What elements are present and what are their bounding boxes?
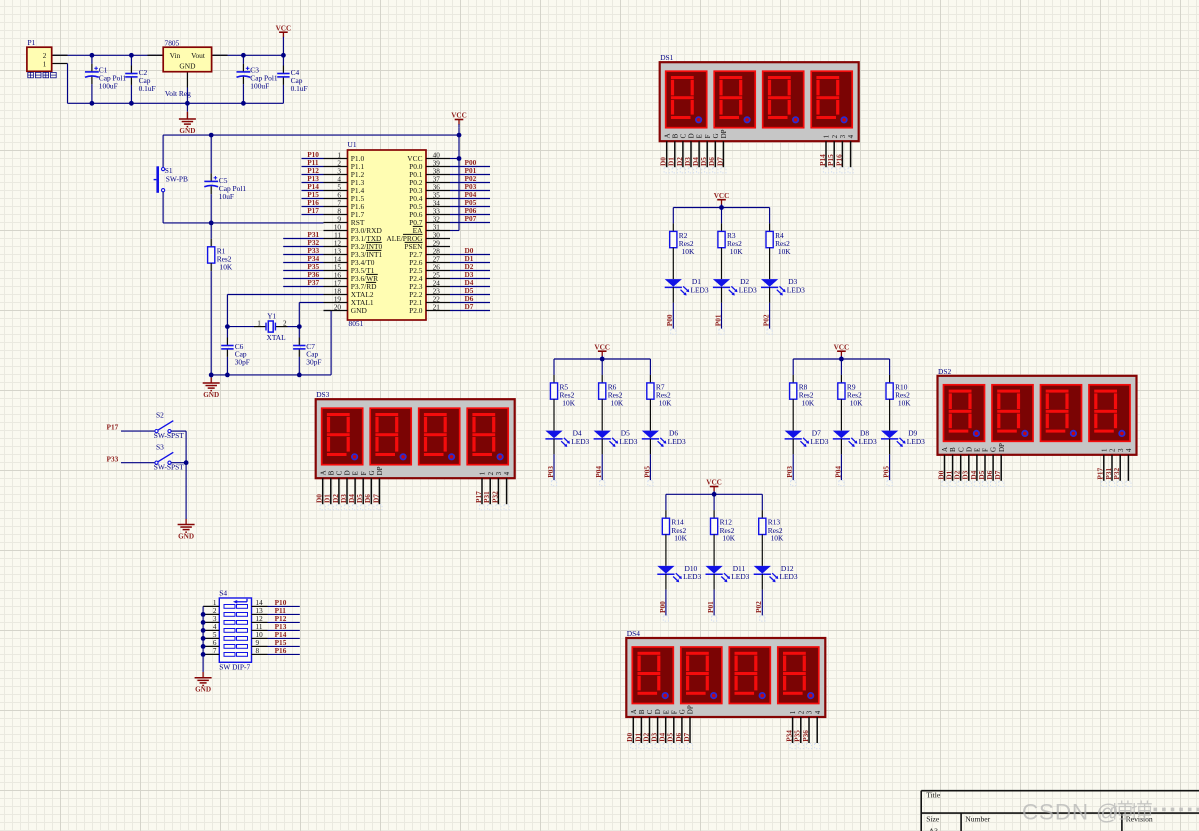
svg-text:16: 16 [334,272,342,280]
U1 right net wires D0-D7 [450,254,490,256]
capacitor C6 [221,342,250,367]
svg-text:P16: P16 [834,154,843,166]
wire [553,359,555,375]
svg-text:36: 36 [433,184,441,192]
svg-text:3: 3 [839,134,847,138]
svg-text:DS2: DS2 [938,367,951,376]
svg-text:P16: P16 [275,646,287,655]
svg-text:34: 34 [433,200,441,208]
S4 left pins [203,599,219,655]
svg-text:19: 19 [334,296,342,304]
svg-text:DS1: DS1 [660,53,673,62]
wire GND rail xtal [211,374,331,376]
resistor R12 [711,518,736,543]
junction dots power rails [90,53,95,58]
wire [769,303,771,329]
pin [769,223,771,231]
svg-text:23: 23 [433,288,441,296]
svg-text:25: 25 [433,272,441,280]
svg-text:C: C [336,470,344,475]
switch S3 SW-SPST [154,442,184,471]
pin [665,535,667,566]
svg-text:SW DIP-7: SW DIP-7 [219,663,250,672]
svg-text:Number: Number [965,814,990,823]
svg-text:P32: P32 [1112,467,1121,479]
wire bottom rail [68,102,284,104]
wire C5 top [210,135,212,173]
svg-text:SW-SPST: SW-SPST [154,431,184,440]
svg-text:Size: Size [926,814,940,823]
svg-text:A: A [941,447,949,452]
LED D9 [881,429,925,447]
S4 right net wires [268,605,300,607]
svg-text:0.1uF: 0.1uF [291,84,308,93]
wire [761,494,763,510]
svg-text:C: C [646,709,654,714]
watermark CSDN [1022,800,1199,825]
svg-text:18: 18 [334,288,342,296]
capacitor C2 wires [130,55,132,65]
svg-text:E: E [974,448,982,452]
pin [601,399,603,430]
wire [889,454,891,480]
resistor R7 [647,382,672,407]
svg-text:1: 1 [43,61,47,69]
wire Vout rail [212,54,284,56]
svg-text:3: 3 [213,615,217,623]
ground symbol at x=211.2 [203,383,220,399]
svg-text:C: C [957,447,965,452]
svg-text:D7: D7 [371,494,380,503]
svg-text:2: 2 [797,710,805,714]
svg-text:DP: DP [687,705,695,714]
wire C5 bottom [210,186,212,194]
wire S1 bottom to RST [162,192,164,223]
power port VCC at x=283.4 [276,24,292,40]
svg-text:2: 2 [283,320,287,328]
svg-text:DP: DP [376,466,384,475]
svg-text:G: G [679,709,687,714]
resistor R8 [790,382,815,407]
wire R1 to GND rail [210,263,212,271]
pin P1.2 [52,54,68,56]
capacitor C1 wires [91,55,93,64]
svg-text:GND: GND [179,62,196,71]
wire [889,359,891,375]
svg-text:12: 12 [256,615,264,623]
svg-text:10K: 10K [802,398,815,407]
svg-text:A: A [663,133,671,138]
capacitor C3 [237,66,278,91]
svg-text:B: B [949,447,957,452]
wire [601,359,603,375]
svg-text:11: 11 [334,232,341,240]
resistor R4 [766,231,791,256]
wire GND stub [186,103,188,111]
svg-text:VCC: VCC [714,192,730,200]
junction [457,156,462,161]
svg-text:5: 5 [213,631,217,639]
svg-text:15: 15 [334,264,342,272]
svg-text:XTAL: XTAL [267,333,287,342]
resistor R1 [208,246,233,271]
svg-text:3: 3 [495,471,503,475]
label 电源接口 (power connector) [28,72,56,77]
wire S3 out [171,462,186,464]
svg-text:P2.0: P2.0 [409,306,423,315]
pin [672,223,674,231]
wire [721,303,723,329]
S4 left bus wire [202,606,204,672]
junction [457,133,462,138]
svg-text:4: 4 [503,471,511,475]
wire [713,590,715,616]
pin [601,439,603,455]
LED D7 [785,429,829,447]
wire down to GND [185,463,187,519]
LED D12 [754,564,798,582]
svg-text:1: 1 [789,710,797,714]
wire VCC stem [458,127,460,135]
svg-text:P02: P02 [762,314,771,326]
svg-text:8051: 8051 [349,319,364,328]
ground symbol at x=203.1 [195,678,212,694]
svg-text:P05: P05 [882,466,891,478]
pin [665,574,667,590]
svg-text:30pF: 30pF [306,358,321,367]
voltage regulator U2 7805 [163,39,211,72]
svg-text:1: 1 [1100,448,1108,452]
pin [889,399,891,430]
wire [761,590,763,616]
capacitor C4 [277,68,307,93]
svg-text:A: A [630,709,638,714]
svg-text:3: 3 [806,710,814,714]
svg-text:5: 5 [337,184,341,192]
svg-text:VCC: VCC [834,343,850,351]
svg-text:LED3: LED3 [787,285,805,294]
junction [184,460,189,465]
svg-text:4: 4 [847,134,855,138]
svg-text:4: 4 [814,710,822,714]
pin [553,439,555,455]
ground symbol at x=187.4 [179,119,196,135]
wire top rail (P1 pin2 to 7805 Vin) [52,54,164,56]
svg-text:4: 4 [213,623,217,631]
svg-text:P17: P17 [107,423,119,432]
svg-text:3: 3 [337,168,341,176]
wire VCC rail [793,358,889,360]
svg-text:E: E [662,710,670,714]
LED D8 [833,429,877,447]
wire [553,454,555,480]
pin [601,375,603,383]
svg-text:32: 32 [433,216,441,224]
svg-text:9: 9 [256,639,260,647]
svg-text:LED3: LED3 [668,437,686,446]
svg-text:GND: GND [178,532,194,540]
svg-text:E: E [352,471,360,475]
svg-text:Vin: Vin [170,51,181,60]
wire 7805 GND to rail [186,88,188,104]
U1 left net wires P10-P17 [302,158,324,160]
pin [713,510,715,518]
wire VCC rail [554,358,650,360]
pin [553,375,555,383]
svg-text:D: D [965,447,973,452]
svg-text:P01: P01 [706,601,715,613]
wire [672,303,674,329]
svg-text:2: 2 [213,607,217,615]
DIP switch S4 SW DIP-7 [219,589,251,672]
svg-text:P02: P02 [754,601,763,613]
svg-text:10: 10 [334,224,342,232]
svg-text:1: 1 [257,320,261,328]
svg-text:LED3: LED3 [691,285,709,294]
7-segment display DS3 [315,390,515,510]
svg-text:4: 4 [337,176,341,184]
svg-text:3: 3 [1117,448,1125,452]
resistor R9 [838,382,863,407]
svg-text:P03: P03 [546,466,555,478]
svg-text:LED3: LED3 [810,437,828,446]
svg-text:1: 1 [823,134,831,138]
svg-text:P05: P05 [642,466,651,478]
svg-text:29: 29 [433,240,441,248]
svg-text:10K: 10K [682,247,695,256]
svg-text:8: 8 [256,647,260,655]
wire EA pin31 to VCC [450,230,459,232]
pin [769,248,771,279]
wire S1 top [162,135,164,168]
pin P1.1 [52,63,68,65]
svg-text:P07: P07 [465,214,477,223]
svg-text:LED3: LED3 [731,572,749,581]
capacitor C7 [293,342,321,367]
power port VCC at x=459.0 [451,112,467,128]
svg-text:P17: P17 [307,206,319,215]
svg-text:SW-PB: SW-PB [166,174,188,183]
svg-text:10K: 10K [898,398,911,407]
svg-text:Y1: Y1 [267,311,276,320]
wire [649,359,651,375]
svg-text:30pF: 30pF [235,358,250,367]
crystal Y1 XTAL [257,311,287,342]
pin [713,535,715,566]
wire to GND [210,375,212,378]
svg-text:P00: P00 [658,601,667,613]
svg-text:37: 37 [433,176,441,184]
svg-text:10K: 10K [778,247,791,256]
svg-text:A: A [319,470,327,475]
capacitor C5 [204,176,246,201]
switch S2 SW-SPST [154,411,184,440]
svg-text:D7: D7 [993,470,1002,479]
wire VCC to rail [282,40,284,55]
svg-text:Volt Reg: Volt Reg [165,89,191,98]
svg-text:VCC: VCC [706,479,722,487]
wire [769,208,771,224]
LED D1 [665,277,709,295]
svg-text:GND: GND [195,686,211,694]
wire [665,590,667,616]
svg-text:P1: P1 [28,38,36,47]
svg-text:2: 2 [1109,448,1117,452]
svg-text:LED3: LED3 [859,437,877,446]
pin [672,287,674,303]
svg-text:35: 35 [433,192,441,200]
wire [792,454,794,480]
svg-text:S4: S4 [219,589,227,598]
resistor R2 [670,231,695,256]
7-segment display DS2 [936,367,1136,487]
svg-text:P01: P01 [713,314,722,326]
svg-text:A3: A3 [929,827,938,831]
pin [665,510,667,518]
svg-text:S2: S2 [156,411,164,420]
svg-text:F: F [360,471,368,475]
svg-text:0.1uF: 0.1uF [139,84,156,93]
svg-text:27: 27 [433,256,441,264]
svg-text:38: 38 [433,168,441,176]
wire [649,454,651,480]
resistor R6 [599,382,624,407]
resistor R5 [550,382,575,407]
svg-text:10K: 10K [722,534,735,543]
svg-text:2: 2 [337,160,341,168]
LED D11 [706,564,750,582]
svg-text:1: 1 [213,599,217,607]
svg-text:F: F [982,448,990,452]
svg-text:30: 30 [433,232,441,240]
wire VCC rail to U1 [163,134,459,136]
crystal circuit wires [227,294,323,296]
wire P17 to S2 [121,430,155,432]
svg-text:100uF: 100uF [250,81,269,90]
S4 right pins [252,599,268,655]
resistor R10 [886,382,911,407]
ground symbol at x=186.1 [178,525,195,541]
svg-text:SW-SPST: SW-SPST [154,462,184,471]
svg-text:6: 6 [213,639,217,647]
svg-text:GND: GND [203,391,219,399]
pin [649,375,651,383]
svg-text:1: 1 [337,152,341,160]
power port VCC at x=714.1 [706,479,722,495]
svg-text:6: 6 [337,192,341,200]
LED D5 [594,429,638,447]
pin [840,439,842,455]
svg-text:DP: DP [720,129,728,138]
junction [719,205,724,210]
LED D3 [761,277,805,295]
svg-text:B: B [671,133,679,138]
svg-text:Vout: Vout [191,51,206,60]
7-segment display DS1 [659,53,859,173]
svg-text:P37: P37 [307,278,319,287]
svg-text:10K: 10K [730,247,743,256]
pin [889,375,891,383]
U1 left net wires P31-P37 [283,238,323,240]
pin [761,574,763,590]
svg-text:G: G [368,470,376,475]
svg-text:2: 2 [43,52,47,60]
svg-text:P03: P03 [785,466,794,478]
pin [721,287,723,303]
LED D4 [545,429,589,447]
LED D2 [713,277,757,295]
svg-text:24: 24 [433,280,441,288]
svg-text:11: 11 [256,623,263,631]
svg-text:P00: P00 [665,314,674,326]
capacitor C3 wires [242,55,244,64]
svg-text:LED3: LED3 [739,285,757,294]
svg-text:7: 7 [213,647,217,655]
svg-text:LED3: LED3 [571,437,589,446]
junction [600,357,605,362]
pin [672,248,674,279]
pin [713,574,715,590]
svg-text:LED3: LED3 [780,572,798,581]
svg-text:GND: GND [351,306,368,315]
pin [721,248,723,279]
pin [761,510,763,518]
svg-text:DP: DP [998,443,1006,452]
svg-text:B: B [327,470,335,475]
svg-text:P33: P33 [107,455,119,464]
wire S2 out [171,430,186,432]
junction dots xtal [225,324,230,329]
svg-text:31: 31 [433,224,441,232]
pin [792,439,794,455]
svg-text:U1: U1 [348,140,357,149]
svg-text:10: 10 [256,631,264,639]
svg-text:20: 20 [334,304,342,312]
svg-text:DS4: DS4 [627,629,640,638]
svg-text:4: 4 [1125,448,1133,452]
wire C5-R1 [210,223,212,239]
svg-text:D7: D7 [465,302,474,311]
svg-text:DS3: DS3 [316,390,329,399]
power port VCC at x=841.4 [834,343,850,359]
svg-text:B: B [638,709,646,714]
svg-text:LED3: LED3 [683,572,701,581]
resistor R13 [759,518,784,543]
svg-text:13: 13 [334,248,342,256]
svg-text:7: 7 [337,200,341,208]
svg-text:CSDN @: CSDN @ [1022,800,1120,825]
svg-text:17: 17 [334,280,342,288]
wire [792,359,794,375]
pin 7805 Vin [148,54,164,56]
wire P33 to S3 [121,462,155,464]
pin [889,439,891,455]
svg-text:2: 2 [487,471,495,475]
U1 right pins [386,152,450,315]
svg-text:22: 22 [433,296,441,304]
pin [840,399,842,430]
svg-text:VCC: VCC [451,112,467,120]
pin [792,399,794,430]
svg-text:1: 1 [479,471,487,475]
capacitor C4 wires [282,55,284,65]
junction [839,357,844,362]
pin [553,399,555,430]
svg-text:LED3: LED3 [619,437,637,446]
power port VCC at x=721.5 [714,192,730,208]
svg-text:D7: D7 [682,733,691,742]
svg-text:100uF: 100uF [99,81,118,90]
